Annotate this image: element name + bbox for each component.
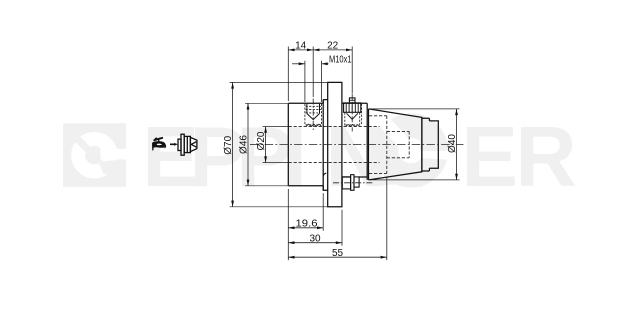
svg-text:Ø40: Ø40 — [447, 134, 458, 153]
svg-text:Ø20: Ø20 — [256, 131, 267, 150]
boss undercut arc — [323, 173, 326, 176]
cone base — [368, 109, 370, 180]
svg-text:Ø46: Ø46 — [238, 135, 249, 154]
hub — [342, 103, 367, 180]
hidden bore lines — [289, 116, 410, 174]
coolant icon: faucet — [152, 138, 165, 150]
dimension Ø46 — [245, 103, 288, 186]
dimension 30 — [288, 242, 342, 244]
dimension Ø20 — [263, 127, 288, 163]
svg-text:14: 14 — [295, 41, 307, 52]
bottom extension lines — [288, 177, 387, 260]
watermark text EPPIN — [142, 108, 575, 206]
small bore bottom — [387, 157, 409, 159]
svg-text:M10x1: M10x1 — [329, 55, 352, 66]
dimension 55 — [288, 256, 387, 258]
dimension M10x1 row — [292, 61, 329, 102]
thread axis — [312, 99, 314, 132]
watermark ring bottom arc — [374, 182, 423, 185]
watermark big logo ring — [371, 108, 458, 176]
body Ø46 — [288, 100, 323, 191]
flange boss left — [323, 100, 328, 191]
pilot cylinder — [422, 117, 430, 171]
taper outline — [369, 109, 422, 180]
watermark logo square — [63, 123, 128, 187]
top plug on hub — [344, 94, 362, 132]
dimension Ø40 — [370, 109, 460, 180]
thread hole left M10x1 — [305, 99, 322, 132]
dimension 19.6 — [288, 227, 323, 229]
svg-text:30: 30 — [309, 234, 321, 245]
coolant icon: mini toolholder — [178, 134, 197, 155]
flange plate Ø70 — [328, 82, 342, 206]
dimension 14/22 row — [288, 47, 352, 102]
svg-text:19.6: 19.6 — [296, 219, 318, 230]
counterbore top — [369, 115, 387, 117]
end cylinder — [429, 121, 438, 168]
svg-text:ER: ER — [461, 110, 575, 205]
main drawing — [288, 82, 438, 206]
counterbore step — [386, 116, 388, 174]
bore Ø20 top — [289, 126, 380, 128]
counterbore bottom — [369, 172, 387, 174]
svg-text:Ø70: Ø70 — [223, 135, 234, 154]
svg-text:N: N — [326, 110, 382, 205]
center line — [250, 144, 464, 146]
bore Ø20 bottom — [289, 162, 380, 164]
small bore end — [408, 131, 410, 157]
small bore top — [387, 130, 409, 132]
svg-text:EPPI: EPPI — [142, 110, 301, 205]
bottom plug axis — [333, 182, 374, 184]
dimension Ø70 — [230, 82, 342, 206]
coolant icon: flow arrow — [170, 143, 175, 145]
bottom plug — [333, 175, 374, 191]
svg-text:55: 55 — [332, 248, 344, 259]
svg-text:22: 22 — [327, 41, 339, 52]
plug axis — [351, 94, 353, 132]
